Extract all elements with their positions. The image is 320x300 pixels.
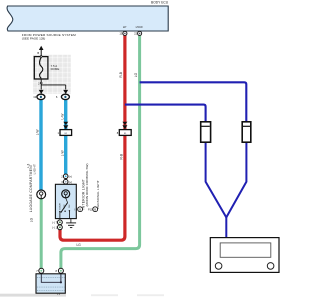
svg-text:DOME: DOME (51, 67, 60, 71)
wire green from ECU pin to junction connector (61, 35, 140, 269)
svg-text:(+): (+) (69, 180, 72, 184)
inline connector on red wire (122, 122, 127, 125)
svg-text:LG: LG (134, 72, 138, 77)
wire cyan left (J/B to luggage light) (39, 98, 42, 191)
wire blue Y junction to moon roof box (225, 216, 227, 238)
wire blue left resistor to Y junction (206, 142, 227, 217)
svg-text:22: 22 (134, 32, 138, 36)
ECU pin LP (123, 31, 127, 35)
junction connector bus joint dot (60, 281, 62, 283)
J/B output arrow right (63, 90, 68, 94)
svg-text:LP: LP (123, 25, 127, 29)
junction connector block (36, 274, 65, 293)
svg-text:R-B: R-B (119, 72, 123, 78)
svg-text:P13: P13 (88, 208, 93, 211)
wire blue right resistor to Y junction (226, 142, 246, 217)
interior light bottom pin 1 (58, 225, 63, 230)
component ref P13 personal light (93, 207, 98, 212)
interior light top pin 3 (63, 179, 68, 184)
wire red from ECU pin to interior light (60, 35, 125, 240)
J/B output arrow left (39, 90, 44, 94)
interior light lamp (62, 190, 70, 198)
pin 2 (40, 82, 42, 84)
svg-text:(MOON ROOF CONTROL SW): (MOON ROOF CONTROL SW) (85, 164, 89, 207)
fuse 7.5A DOME (34, 57, 48, 79)
junction block pin left (39, 268, 44, 273)
wire blue branch from green wire to right resistor (140, 82, 247, 122)
svg-text:(-) 7: (-) 7 (52, 220, 57, 224)
body ECU bus bar (7, 6, 168, 31)
ECU pin L5CF (138, 31, 142, 35)
svg-text:(SEE PAGE 128): (SEE PAGE 128) (22, 37, 46, 41)
fuse bottom wiring (40, 79, 42, 90)
moon roof box right mounting hole (267, 263, 274, 270)
power feed arrow (39, 46, 44, 50)
wire cyan right (J/B to interior light) (64, 98, 67, 176)
J/B connector oval 13 (37, 94, 45, 99)
svg-text:LIGHT: LIGHT (32, 164, 36, 175)
svg-text:(-) 1: (-) 1 (52, 225, 57, 229)
svg-text:(+): (+) (69, 174, 72, 178)
wire blue branch from red wire to left resistor (125, 105, 206, 122)
interior light top pin 2 (63, 174, 68, 179)
wire green luggage light to junction connector (40, 199, 43, 269)
ground at interior light (70, 219, 72, 223)
component ref I8 interior light (78, 207, 83, 212)
junction block pin right (58, 268, 63, 273)
J/B connector oval 6 (61, 94, 69, 99)
svg-text:L-W: L-W (60, 150, 64, 156)
moon roof control box (210, 238, 279, 273)
svg-text:LG: LG (77, 243, 82, 247)
svg-text:15: 15 (119, 32, 123, 36)
svg-text:OFF: OFF (64, 204, 66, 209)
resistor right (242, 122, 251, 142)
svg-text:L5CF: L5CF (136, 25, 144, 29)
svg-text:DOOR: DOOR (59, 203, 61, 210)
luggage compartment light lamp (37, 190, 46, 199)
interior light switch (66, 198, 68, 203)
svg-text:B: B (37, 51, 39, 55)
svg-text:ON: ON (69, 204, 71, 208)
svg-text:PERSONAL LIGHT: PERSONAL LIGHT (96, 180, 100, 209)
svg-text:13: 13 (33, 95, 36, 99)
ground strip segment 2 (91, 294, 118, 296)
junction block shaded area (33, 55, 71, 94)
svg-text:R-B: R-B (120, 154, 124, 160)
inline connector on cyan wire (63, 122, 68, 125)
resistor left (201, 122, 211, 142)
ground strip bottom (0, 294, 66, 297)
svg-text:L-W: L-W (60, 114, 64, 120)
svg-text:LG: LG (30, 217, 34, 222)
svg-text:L-W: L-W (36, 129, 40, 135)
interior light bottom pin 7 (58, 220, 63, 225)
svg-text:BODY ECU: BODY ECU (151, 0, 169, 4)
fuse top pin (40, 56, 42, 58)
ground strip segment 3 (137, 294, 164, 296)
interior light box (55, 184, 76, 218)
